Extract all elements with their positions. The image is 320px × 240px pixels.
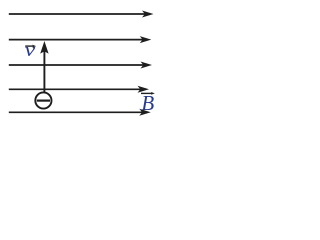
field line 1 [9, 11, 154, 18]
velocity arrow (wire) [40, 41, 48, 93]
label B [141, 91, 155, 115]
field line 5 [9, 109, 151, 116]
field line 3 [9, 62, 152, 69]
field line 4 [9, 86, 149, 93]
svg-text:v: v [25, 39, 36, 60]
negative charge [35, 92, 51, 108]
label v [25, 39, 37, 60]
field line 2 [9, 36, 152, 43]
svg-text:B: B [141, 91, 154, 115]
